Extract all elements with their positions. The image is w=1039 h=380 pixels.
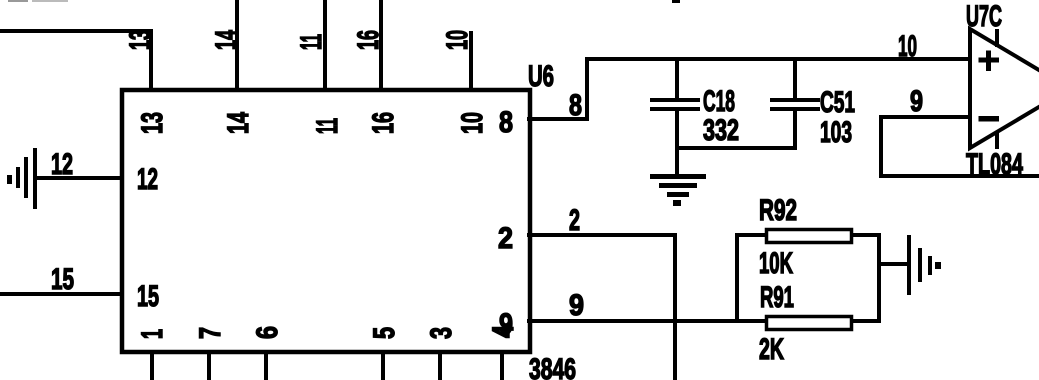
wire top-left net to pin 13 [0, 29, 153, 33]
svg-text:10: 10 [898, 30, 917, 63]
cut-off text remnant top-left [8, 0, 28, 2]
svg-text:8: 8 [569, 89, 582, 122]
svg-text:3: 3 [425, 327, 458, 339]
wire pin 11 vertical [323, 0, 327, 92]
wire pin 9 to R91 [527, 319, 765, 323]
capacitor C51 [770, 98, 820, 111]
wire pin 2 drop down [673, 233, 677, 380]
svg-text:6: 6 [251, 326, 284, 339]
op-amp - input symbol [979, 116, 1000, 122]
svg-text:12: 12 [137, 163, 158, 196]
wire bottom pin 4 [500, 350, 504, 380]
wire C18-C51 bottom connector [675, 146, 797, 150]
wire C18 bottom lead to ground [675, 111, 679, 176]
wire pin 8 riser [585, 57, 589, 121]
wire C51 bottom lead [793, 111, 797, 150]
wire pin 2 stub [527, 233, 677, 237]
wire C18 top lead [675, 61, 679, 98]
op-amp V- power stub [995, 131, 999, 149]
wire op-amp -input horizontal [879, 115, 970, 119]
wire pin 15 to left edge [0, 292, 124, 296]
resistor R92 [767, 230, 852, 243]
svg-text:14: 14 [210, 30, 243, 50]
resistor R91 [767, 317, 852, 330]
svg-text:1: 1 [136, 329, 169, 339]
svg-text:2: 2 [569, 204, 580, 237]
wire ground tap right [881, 262, 908, 266]
wire R92 left lead [735, 233, 765, 237]
svg-text:16: 16 [352, 30, 385, 50]
wire pin 8 stub [527, 117, 589, 121]
wire op-amp output feedback bottom [879, 174, 1039, 178]
svg-text:10K: 10K [759, 247, 793, 280]
svg-text:11: 11 [295, 34, 328, 50]
svg-text:8: 8 [499, 106, 513, 139]
svg-text:4: 4 [487, 325, 520, 338]
op-amp U7C triangle [970, 29, 1039, 148]
wire bottom pin 6 [264, 350, 268, 380]
svg-text:C51: C51 [820, 86, 855, 119]
svg-text:3846: 3846 [529, 353, 576, 380]
wire bottom pin 3 [438, 350, 442, 380]
svg-text:12: 12 [51, 148, 73, 181]
wire R92-R91 left connector [735, 233, 739, 323]
op-amp + input symbol [979, 51, 1000, 72]
svg-text:U6: U6 [528, 60, 554, 93]
wire R91 right lead [853, 319, 881, 323]
op-amp V+ power stub [995, 29, 999, 47]
svg-text:5: 5 [368, 327, 401, 339]
ground right (R92/R91) [907, 235, 941, 295]
svg-text:10: 10 [441, 30, 474, 50]
svg-text:U7C: U7C [966, 0, 1002, 33]
svg-text:332: 332 [703, 114, 739, 147]
wire cut-off mark top edge [672, 0, 680, 3]
wire bottom pin 5 [381, 350, 385, 380]
svg-text:15: 15 [51, 263, 74, 296]
svg-text:TL084: TL084 [966, 148, 1023, 181]
svg-text:R92: R92 [759, 194, 797, 227]
svg-text:13: 13 [124, 30, 157, 50]
svg-text:2: 2 [498, 222, 513, 255]
wire bottom pin 7 [207, 350, 211, 380]
wire op-amp -input feedback vertical [879, 115, 883, 178]
wire pin 13 vertical [149, 29, 153, 92]
svg-text:R91: R91 [760, 281, 794, 314]
svg-text:16: 16 [367, 112, 400, 134]
capacitor C18 [650, 98, 700, 111]
svg-text:103: 103 [820, 116, 852, 149]
svg-text:10: 10 [456, 112, 489, 134]
wire pin 12 to ground [35, 176, 124, 180]
svg-text:2K: 2K [759, 333, 784, 366]
wire bottom pin 1 [150, 350, 154, 380]
wire pin 10 stub [469, 31, 473, 92]
ground center (C18/C51) [650, 174, 706, 206]
svg-text:13: 13 [136, 112, 169, 134]
wire pin 14 vertical [235, 0, 239, 92]
svg-text:11: 11 [311, 118, 344, 134]
svg-text:15: 15 [137, 280, 159, 313]
svg-text:9: 9 [569, 289, 584, 322]
wire R92 right lead [853, 233, 881, 237]
wire R92-R91 right connector [877, 233, 881, 323]
svg-text:7: 7 [194, 327, 227, 339]
svg-text:9: 9 [910, 85, 923, 118]
IC U6 3846 box [122, 90, 530, 352]
wire top net pin8 to op-amp +input [585, 57, 970, 61]
wire pin 16 vertical [379, 0, 383, 92]
svg-text:14: 14 [222, 112, 255, 134]
wire C51 top lead [793, 61, 797, 98]
ground left (pin 12) [7, 148, 37, 209]
